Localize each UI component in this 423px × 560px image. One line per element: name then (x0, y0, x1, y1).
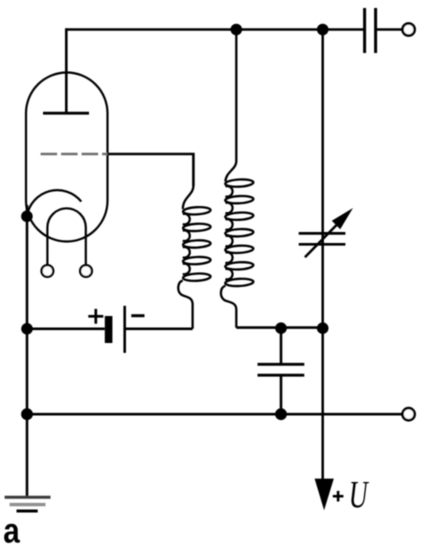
heater filament (47, 208, 85, 265)
variable capacitor C2 plate bottom (299, 243, 346, 246)
ground (5, 497, 51, 511)
triode V1 envelope (26, 73, 108, 242)
capacitor C3 plate bottom (258, 374, 305, 377)
label a (4, 524, 20, 543)
anode plate (43, 112, 89, 115)
wire L2 bottom to right vertical (236, 326, 322, 329)
terminal output top (403, 23, 415, 35)
node bottom rail / C3 (275, 408, 287, 420)
wire left vertical (26, 205, 29, 497)
label +U (333, 482, 369, 508)
wire battery row right (125, 327, 193, 330)
node battery / left wire (21, 323, 33, 335)
inductor L2 (right coil) (221, 30, 254, 328)
wire battery row left (27, 327, 105, 330)
battery B1 positive plate (thick) (105, 316, 113, 343)
node top rail / right vertical (317, 24, 329, 36)
grid (dashed) (41, 153, 108, 156)
inductor L1 (left coil) (178, 186, 211, 329)
node top rail / L2 (231, 24, 243, 36)
filament pin terminal left (42, 265, 54, 277)
node cathode junction (21, 211, 33, 223)
wire right vertical (321, 30, 324, 486)
variable capacitor C2 arrow (305, 208, 353, 257)
capacitor C1 plate right (374, 8, 377, 53)
filament pin terminal right (80, 265, 92, 277)
node bottom rail / left wire (21, 408, 33, 420)
node mid row / right vertical (317, 322, 329, 334)
battery - label (131, 314, 144, 317)
battery B1 negative plate (thin) (123, 306, 126, 353)
terminal output bottom (403, 408, 415, 420)
cathode arc (27, 190, 81, 216)
node C3 top junction (275, 322, 287, 334)
wire bottom rail (27, 413, 403, 416)
wire anode lead (65, 28, 68, 113)
variable capacitor C2 plate top (299, 232, 346, 235)
wire grid to coil (108, 154, 194, 186)
capacitor C3 lead bottom (280, 375, 283, 414)
capacitor C1 plate left (363, 8, 366, 53)
battery + label (88, 309, 103, 324)
capacitor C3 plate top (258, 363, 305, 366)
capacitor C3 lead top (280, 328, 283, 364)
wire C1 to terminal (376, 28, 403, 31)
arrow +U supply (315, 479, 334, 511)
wire top rail (66, 28, 364, 31)
